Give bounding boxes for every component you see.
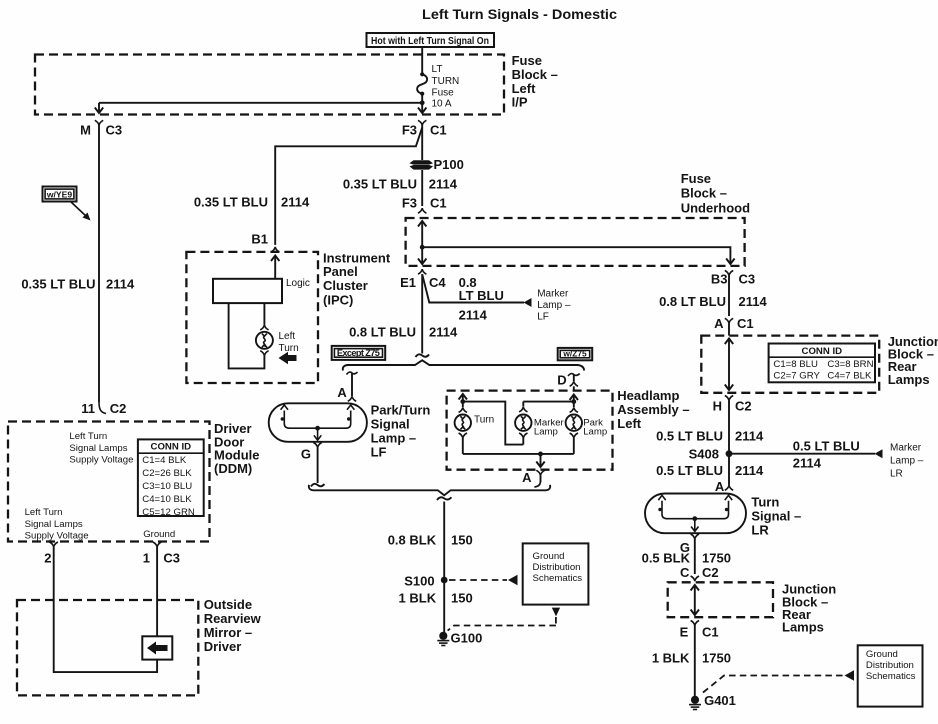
svg-text:Driver: Driver <box>204 639 242 654</box>
wire from F3 C1 to P100 <box>421 125 423 160</box>
svg-text:C3=10 BLU: C3=10 BLU <box>142 481 192 492</box>
Junction Block Rear Lamps dashed box (lower) <box>668 582 773 617</box>
label: Outside Rearview Mirror - Driver <box>204 597 262 654</box>
svg-text:E1: E1 <box>400 275 416 290</box>
svg-text:C1=8 BLU: C1=8 BLU <box>773 359 818 370</box>
svg-text:1750: 1750 <box>702 651 731 666</box>
svg-text:C4=10 BLK: C4=10 BLK <box>142 494 192 505</box>
off-page arrow to marker lamp LF <box>524 298 532 307</box>
label: Marker Lamp - LF <box>537 288 571 322</box>
svg-text:C4: C4 <box>429 275 446 290</box>
svg-text:LT: LT <box>432 64 443 75</box>
svg-text:Signal Lamps: Signal Lamps <box>69 443 127 454</box>
svg-text:Lamp: Lamp <box>534 426 558 437</box>
wire S408 to A <box>728 454 730 483</box>
svg-text:Logic: Logic <box>286 278 310 289</box>
ground distribution reference dashed (G401) <box>703 670 854 692</box>
svg-text:C1: C1 <box>702 625 719 640</box>
svg-text:1 BLK: 1 BLK <box>399 591 437 606</box>
ground G100 <box>437 631 482 646</box>
svg-text:Ground: Ground <box>143 529 175 540</box>
svg-text:Cluster: Cluster <box>323 278 368 293</box>
svg-text:Lamp –: Lamp – <box>537 300 571 311</box>
svg-text:0.35 LT BLU: 0.35 LT BLU <box>194 195 268 210</box>
wire fuse to junction <box>421 94 423 103</box>
svg-text:150: 150 <box>451 591 473 606</box>
dashed drop from schematics box to G100 <box>448 608 560 631</box>
svg-text:Supply Voltage: Supply Voltage <box>69 455 133 466</box>
wire label 0.5 BLK 1750 <box>642 551 731 566</box>
label: Park/Turn Signal Lamp - LF <box>371 402 431 459</box>
wire label 0.8 LT BLU 2114 (trunk) <box>349 325 458 340</box>
svg-text:Block –: Block – <box>681 186 727 201</box>
svg-text:Underhood: Underhood <box>681 200 750 215</box>
IPC left turn indicator lamp <box>256 332 273 349</box>
connector A (LR lamp) <box>715 479 733 494</box>
connector C C2 <box>680 565 719 581</box>
option label Except Z75 <box>332 346 386 360</box>
svg-text:Fuse: Fuse <box>512 53 542 68</box>
svg-text:2114: 2114 <box>735 429 764 444</box>
svg-text:w/YE9: w/YE9 <box>46 190 73 200</box>
label: Turn Signal - LR <box>751 495 801 538</box>
connector A C1 <box>714 316 754 331</box>
wire 0.8 BLK to S100 <box>443 502 445 581</box>
svg-text:2114: 2114 <box>429 325 458 340</box>
svg-text:LF: LF <box>371 444 387 459</box>
mirror turn signal indicator box <box>142 636 172 659</box>
svg-text:2114: 2114 <box>429 177 458 192</box>
label: Headlamp Assembly - Left <box>617 388 689 431</box>
svg-text:LT BLU: LT BLU <box>459 288 504 303</box>
svg-text:1750: 1750 <box>702 551 731 566</box>
svg-text:A: A <box>715 479 725 494</box>
wire label 0.35 LT BLU 2114 (P100) <box>343 177 458 192</box>
label: Junction Block - Rear Lamps (upper) <box>888 334 938 387</box>
svg-text:0.5 LT BLU: 0.5 LT BLU <box>793 439 860 454</box>
label: Marker Lamp - LR <box>890 443 924 480</box>
Park/Turn Signal Lamp LF body <box>269 403 367 442</box>
DDM pin label: Left Turn Signal Lamps Supply Voltage (2 C3) <box>25 507 89 542</box>
svg-text:P100: P100 <box>434 157 464 172</box>
wire 1 BLK to G100 <box>443 580 445 633</box>
svg-text:S408: S408 <box>689 447 719 462</box>
junction block pass-through wire (double arrow, lower) <box>691 585 699 615</box>
wire P100 to F3 C1 underhood <box>421 170 423 206</box>
wire E to G401 <box>694 626 696 698</box>
wire across underhood block <box>422 247 730 258</box>
wire B3 to A C1 <box>728 276 730 317</box>
wire label 1 BLK 1750 <box>652 651 731 666</box>
svg-text:A: A <box>337 385 347 400</box>
svg-text:1: 1 <box>143 551 150 566</box>
junction inside underhood block <box>420 245 425 250</box>
svg-text:Lamps: Lamps <box>888 372 930 387</box>
svg-text:Marker: Marker <box>537 288 569 299</box>
svg-text:Left: Left <box>512 81 536 96</box>
svg-text:LR: LR <box>890 469 903 480</box>
svg-text:CONN ID: CONN ID <box>802 346 843 357</box>
connector A (LF lamp) <box>337 372 357 401</box>
wire: mirror ground side (pin 1) <box>156 547 158 636</box>
svg-text:Schematics: Schematics <box>533 573 583 584</box>
svg-text:Lamp –: Lamp – <box>371 430 417 445</box>
wire from logic to lamp <box>263 303 265 325</box>
svg-text:0.8 BLK: 0.8 BLK <box>388 533 437 548</box>
svg-text:Lamps: Lamps <box>782 620 824 635</box>
svg-text:Instrument: Instrument <box>323 250 391 265</box>
wire label 0.8 LT BLU 2114 (marker branch) <box>459 275 504 323</box>
branch wire to LF marker lamp <box>422 274 524 302</box>
ground bracket tilde <box>437 497 451 500</box>
svg-text:C: C <box>680 565 690 580</box>
connector F3 C1 (I/P fuse block) <box>402 120 447 137</box>
svg-text:0.5 LT BLU: 0.5 LT BLU <box>656 429 723 444</box>
P100 grommet <box>410 157 464 172</box>
svg-text:Distribution: Distribution <box>866 660 914 671</box>
svg-text:2114: 2114 <box>106 277 135 292</box>
DDM pin label: Left Turn Signal Lamps Supply Voltage (11 C2) <box>69 431 133 466</box>
svg-text:Panel: Panel <box>323 264 358 279</box>
svg-text:E: E <box>680 625 689 640</box>
label: Junction Block - Rear Lamps (lower) <box>782 582 836 635</box>
svg-text:Marker: Marker <box>890 443 922 454</box>
svg-text:C3: C3 <box>163 551 180 566</box>
svg-text:Left: Left <box>279 331 296 342</box>
label: Fuse Block - Underhood <box>681 171 750 216</box>
svg-text:Ground: Ground <box>866 649 898 660</box>
wire label 0.5 LT BLU 2114 (lower) <box>656 463 764 478</box>
connector below IPC lamp <box>260 351 268 356</box>
svg-text:2114: 2114 <box>739 294 768 309</box>
svg-text:Park/Turn: Park/Turn <box>371 402 431 417</box>
wire from hot label to fuse <box>421 47 423 74</box>
svg-text:2114: 2114 <box>793 456 822 471</box>
connector A (headlamp ground) <box>522 470 545 487</box>
svg-text:C2=7 GRY: C2=7 GRY <box>773 371 820 382</box>
svg-text:LF: LF <box>537 312 549 323</box>
svg-text:0.8 LT BLU: 0.8 LT BLU <box>349 325 416 340</box>
svg-text:C2: C2 <box>702 565 719 580</box>
svg-text:C1: C1 <box>737 316 754 331</box>
svg-text:Schematics: Schematics <box>866 671 916 682</box>
svg-text:0.5 BLK: 0.5 BLK <box>642 551 691 566</box>
Ground Distribution Schematics box (left) <box>523 543 589 604</box>
svg-text:B1: B1 <box>251 232 268 247</box>
svg-text:I/P: I/P <box>512 95 528 110</box>
Turn Signal LR lamp body <box>645 494 746 534</box>
junction at fuse output <box>420 100 425 105</box>
svg-text:C2: C2 <box>735 399 752 414</box>
svg-text:Hot with Left Turn Signal On: Hot with Left Turn Signal On <box>371 35 489 47</box>
connector pin 2 <box>44 542 58 566</box>
G wire end curl <box>311 484 325 487</box>
fuse block left I/P dashed box <box>35 55 504 115</box>
svg-text:CONN ID: CONN ID <box>151 442 192 453</box>
svg-text:150: 150 <box>451 533 473 548</box>
svg-text:TURN: TURN <box>432 76 460 87</box>
svg-text:F3: F3 <box>402 123 417 138</box>
svg-text:Lamp: Lamp <box>583 426 607 437</box>
Junction Block Rear Lamps dashed box (upper) <box>701 336 879 393</box>
connector above IPC lamp <box>260 325 268 330</box>
svg-text:Signal Lamps: Signal Lamps <box>25 519 83 530</box>
wire arrow down to F3 C1 <box>418 103 426 113</box>
Ground Distribution Schematics box (right) <box>858 645 923 706</box>
option label w/YE9 <box>43 187 91 221</box>
Outside Rearview Mirror dashed box <box>17 600 198 695</box>
svg-text:C5=12 GRN: C5=12 GRN <box>142 507 195 518</box>
Headlamp Assembly dashed box <box>447 391 613 470</box>
wire label 0.35 LT BLU 2114 (left) <box>21 277 135 292</box>
svg-text:2114: 2114 <box>281 195 310 210</box>
wire: fuse block feed bus <box>99 102 422 104</box>
Instrument Panel Cluster dashed box <box>186 252 318 383</box>
svg-text:S100: S100 <box>404 574 434 589</box>
svg-text:Signal: Signal <box>371 416 410 431</box>
headlamp internal wire turn-to-marker <box>463 402 524 445</box>
svg-text:C3: C3 <box>739 272 756 287</box>
wire arrow up from logic to B1 <box>271 256 279 279</box>
svg-text:A: A <box>522 470 532 485</box>
svg-text:Supply Voltage: Supply Voltage <box>25 531 89 542</box>
connector E1 C4 <box>400 269 446 290</box>
svg-text:C3: C3 <box>106 123 123 138</box>
svg-text:Lamp –: Lamp – <box>890 456 924 467</box>
svg-text:11: 11 <box>81 401 95 416</box>
svg-text:1 BLK: 1 BLK <box>652 651 690 666</box>
svg-text:C2: C2 <box>110 401 127 416</box>
svg-text:Turn: Turn <box>751 495 779 510</box>
wire 0.8 LT BLU trunk <box>421 274 423 353</box>
label: Left Turn <box>279 331 299 354</box>
connector H C2 <box>713 396 752 414</box>
wire into junction block <box>728 323 730 335</box>
svg-text:C3=8 BRN: C3=8 BRN <box>827 359 873 370</box>
turn bulb branch <box>455 402 495 454</box>
wire arrow down to E1 <box>418 247 426 264</box>
svg-text:0.35 LT BLU: 0.35 LT BLU <box>343 177 417 192</box>
connector E C1 <box>680 621 719 640</box>
svg-text:Left Turn Signals - Domestic: Left Turn Signals - Domestic <box>422 6 617 22</box>
wire from logic down-left loop <box>229 303 265 368</box>
svg-text:Left Turn: Left Turn <box>69 431 107 442</box>
ground distribution reference dashed (S100) <box>449 575 518 585</box>
marker bulb branch <box>515 402 564 445</box>
svg-text:Mirror –: Mirror – <box>204 625 252 640</box>
options feed bracket bus <box>343 360 584 370</box>
IPC logic box <box>213 278 310 303</box>
wire arrow down to B3 <box>726 258 734 264</box>
svg-text:Fuse: Fuse <box>432 87 455 98</box>
connector G (LR lamp) <box>680 534 699 555</box>
svg-text:(IPC): (IPC) <box>323 292 353 307</box>
connector M C3 <box>80 120 122 137</box>
svg-text:Headlamp: Headlamp <box>617 388 679 403</box>
svg-text:Rearview: Rearview <box>204 611 262 626</box>
svg-text:M: M <box>80 123 91 138</box>
svg-text:G100: G100 <box>451 631 483 646</box>
splice S100 <box>404 574 447 589</box>
svg-text:Signal –: Signal – <box>751 509 801 524</box>
CONN ID table (junction block) <box>769 344 875 383</box>
svg-text:Except Z75: Except Z75 <box>337 348 380 358</box>
svg-text:F3: F3 <box>402 195 417 210</box>
ground bracket bus <box>309 485 550 496</box>
svg-text:10 A: 10 A <box>432 99 452 110</box>
svg-text:2: 2 <box>44 551 51 566</box>
svg-text:Left Turn: Left Turn <box>25 507 63 518</box>
svg-text:Assembly –: Assembly – <box>617 402 689 417</box>
svg-text:w/Z75: w/Z75 <box>562 349 587 359</box>
wire arrow down to M C3 <box>95 103 103 113</box>
connector F3 C1 (underhood) <box>402 195 447 213</box>
svg-text:(DDM): (DDM) <box>214 461 252 476</box>
connector B3 C3 <box>711 271 755 287</box>
svg-text:A: A <box>714 316 724 331</box>
svg-text:Fuse: Fuse <box>681 171 711 186</box>
DDM CONN ID table <box>138 439 204 518</box>
wire arrow up (turn feed) <box>459 394 467 404</box>
svg-text:0.35 LT BLU: 0.35 LT BLU <box>21 277 95 292</box>
park bulb branch <box>566 402 608 454</box>
wire H to S408 <box>728 401 730 454</box>
label: Fuse Block - Left I/P <box>512 53 558 109</box>
connector D (headlamp) <box>557 373 579 391</box>
svg-text:B3: B3 <box>711 272 728 287</box>
svg-text:Left: Left <box>617 416 642 431</box>
label box: Hot with Left Turn Signal On <box>367 33 495 47</box>
wire 0.35 LT BLU from C3 to DDM <box>98 125 100 402</box>
svg-text:C4=7 BLK: C4=7 BLK <box>827 371 872 382</box>
svg-text:D: D <box>557 373 566 388</box>
connector B1 <box>251 232 279 253</box>
svg-text:0.5 LT BLU: 0.5 LT BLU <box>656 463 723 478</box>
wire label 0.8 BLK 150 <box>388 533 473 548</box>
svg-text:Turn: Turn <box>474 415 494 426</box>
wire G to C <box>694 539 696 574</box>
wire label 1 BLK 150 <box>399 591 473 606</box>
junction block pass-through wire (double arrow) <box>725 339 733 391</box>
label: Driver Door Module (DDM) <box>214 421 260 476</box>
off-page arrow to marker lamp LR <box>875 449 883 458</box>
svg-text:Turn: Turn <box>279 343 299 354</box>
wire from G to ground bracket <box>317 448 319 484</box>
wire label 0.8 LT BLU 2114 (right) <box>659 294 767 309</box>
label: Instrument Panel Cluster (IPC) <box>323 250 391 307</box>
svg-text:C1: C1 <box>430 195 447 210</box>
connector 11 C2 <box>81 401 126 416</box>
IPC green left arrow <box>279 352 297 364</box>
ground G401 <box>689 693 736 710</box>
svg-text:Ground: Ground <box>533 551 565 562</box>
svg-text:LR: LR <box>751 523 769 538</box>
wire label 0.5 LT BLU 2114 (branch) <box>793 439 860 471</box>
Driver Door Module dashed box <box>8 422 210 542</box>
svg-text:G401: G401 <box>704 693 736 708</box>
trunk wire end curl <box>416 354 430 357</box>
svg-text:0.8 LT BLU: 0.8 LT BLU <box>659 294 726 309</box>
svg-text:G: G <box>301 447 311 462</box>
connector G (LF lamp) <box>301 443 322 462</box>
wire arrow up inside underhood block <box>418 221 426 247</box>
branch wire to marker lamp LR <box>729 453 875 455</box>
wire label 0.5 LT BLU 2114 <box>656 429 764 444</box>
branch wire to IPC B1 <box>275 128 422 245</box>
headlamp internal ground bus <box>463 452 574 468</box>
splice S408 <box>689 447 733 462</box>
svg-text:2114: 2114 <box>735 463 764 478</box>
svg-text:H: H <box>713 399 722 414</box>
headlamp internal wire marker-to-park <box>523 401 574 403</box>
svg-text:C1=4 BLK: C1=4 BLK <box>142 455 187 466</box>
connector pin 1 C3 <box>143 542 180 566</box>
wire arrow up (park feed D) <box>570 395 578 405</box>
svg-text:C1: C1 <box>430 123 447 138</box>
svg-text:2114: 2114 <box>459 308 488 323</box>
svg-text:C2=26 BLK: C2=26 BLK <box>142 468 192 479</box>
svg-text:Distribution: Distribution <box>533 562 581 573</box>
option label w/Z75 <box>558 348 593 360</box>
wire: mirror supply (pin 2) <box>54 547 157 672</box>
Fuse Block Underhood dashed box <box>406 218 745 266</box>
svg-text:Outside: Outside <box>204 597 252 612</box>
svg-text:Block –: Block – <box>512 67 558 82</box>
wire label 0.35 LT BLU 2114 (IPC branch) <box>194 195 310 210</box>
fuse LT TURN 10 A <box>417 64 459 110</box>
